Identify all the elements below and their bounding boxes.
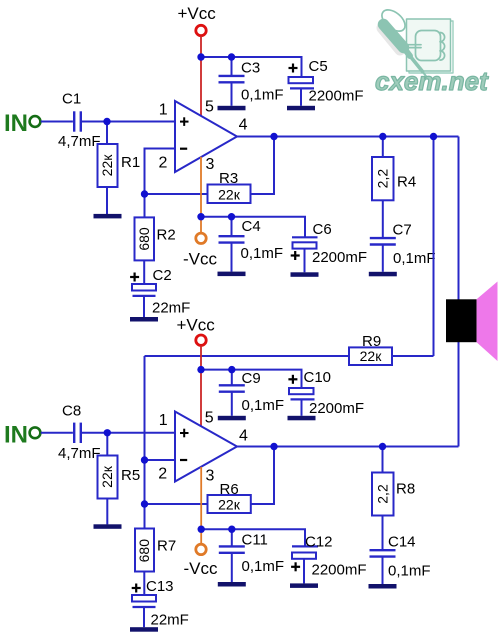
svg-text:R8: R8 bbox=[396, 480, 415, 497]
svg-text:5: 5 bbox=[205, 410, 214, 427]
svg-text:680: 680 bbox=[136, 539, 152, 563]
ground under C11 bbox=[218, 582, 246, 587]
ground under C9 bbox=[218, 416, 246, 421]
wire pin 2 of U2 bbox=[145, 459, 176, 461]
wire R9 right bbox=[392, 355, 434, 357]
wire junction to R2 bbox=[144, 194, 146, 217]
svg-text:R3: R3 bbox=[219, 170, 238, 187]
wire R9 riser from output bbox=[433, 137, 435, 357]
capacitor C7 bbox=[370, 222, 436, 272]
resistor R7 bbox=[135, 529, 176, 572]
svg-text:+Vcc: +Vcc bbox=[178, 4, 217, 23]
capacitor C11 bbox=[219, 529, 284, 582]
node IN (top input) bbox=[4, 110, 40, 137]
wire R1 to ground bbox=[106, 187, 108, 214]
wire R8 to C14 bbox=[382, 516, 384, 551]
svg-text:R6: R6 bbox=[220, 481, 239, 498]
svg-text:2200mF: 2200mF bbox=[309, 400, 364, 417]
wire -Vcc rail bbox=[201, 217, 305, 238]
resistor R5 bbox=[98, 456, 141, 499]
wire R3 left bbox=[145, 193, 208, 195]
svg-text:0,1mF: 0,1mF bbox=[388, 563, 431, 580]
svg-text:C8: C8 bbox=[62, 402, 81, 419]
svg-text:C12: C12 bbox=[305, 533, 333, 550]
wire inverting node vertical (R9 to R7) bbox=[144, 356, 146, 530]
resistor R3 bbox=[208, 170, 251, 203]
svg-text:0,1mF: 0,1mF bbox=[242, 558, 285, 575]
svg-text:0,1mF: 0,1mF bbox=[393, 250, 436, 267]
ground under C6 bbox=[291, 272, 319, 277]
svg-text:4: 4 bbox=[239, 117, 248, 134]
wire junction to R1 bbox=[106, 122, 108, 145]
ground under C7 bbox=[369, 272, 397, 277]
node IN (bottom input) bbox=[4, 421, 40, 448]
svg-text:4: 4 bbox=[239, 427, 248, 444]
+Vcc terminal (top) bbox=[178, 4, 217, 36]
wire pin 2 bbox=[145, 149, 176, 195]
svg-text:C13: C13 bbox=[146, 578, 174, 595]
ground under R5 bbox=[94, 524, 122, 529]
capacitor C2 bbox=[130, 267, 190, 317]
svg-text:2200mF: 2200mF bbox=[312, 562, 367, 579]
wire +Vcc red to pin 5 of U2 bbox=[200, 346, 202, 426]
-Vcc terminal (top) bbox=[183, 233, 218, 268]
capacitor C13 bbox=[132, 578, 189, 629]
op-amp U1 bbox=[175, 101, 237, 172]
junction dots top channel bbox=[103, 118, 110, 125]
op-amp U2 bbox=[175, 412, 237, 482]
svg-text:22к: 22к bbox=[360, 348, 383, 364]
svg-text:R9: R9 bbox=[362, 333, 381, 350]
svg-text:22к: 22к bbox=[99, 154, 115, 177]
wire output of U1 bbox=[237, 136, 459, 138]
capacitor C12 bbox=[291, 533, 366, 583]
svg-text:IN: IN bbox=[4, 421, 28, 448]
capacitor C3 bbox=[219, 57, 284, 106]
capacitor C6 bbox=[291, 221, 367, 272]
svg-text:-Vcc: -Vcc bbox=[184, 559, 219, 578]
wire R6 right to output bbox=[251, 447, 274, 505]
svg-text:R7: R7 bbox=[157, 538, 176, 555]
ground under C2 bbox=[130, 317, 158, 322]
ground under C3 bbox=[218, 106, 246, 111]
svg-text:2,2: 2,2 bbox=[375, 169, 391, 189]
svg-text:1: 1 bbox=[159, 412, 168, 429]
wire +Vcc red to pin 5 bbox=[200, 36, 202, 116]
ground under C13 bbox=[130, 627, 158, 632]
wire R6 left bbox=[145, 503, 208, 505]
svg-text:0,1mF: 0,1mF bbox=[241, 87, 284, 104]
ground under C5 bbox=[287, 106, 315, 111]
capacitor C5 bbox=[289, 58, 364, 106]
wire pin 3 of U2 to -Vcc (orange) bbox=[200, 467, 202, 544]
-Vcc terminal (bottom) bbox=[184, 544, 219, 578]
capacitor C8 bbox=[58, 402, 101, 462]
svg-text:R5: R5 bbox=[121, 467, 140, 484]
resistor R9 bbox=[349, 333, 392, 365]
svg-text:IN: IN bbox=[4, 110, 28, 137]
+Vcc terminal (bottom) bbox=[177, 316, 216, 346]
svg-text:-Vcc: -Vcc bbox=[183, 250, 218, 269]
svg-text:C3: C3 bbox=[241, 60, 260, 77]
wire R4 to C7 bbox=[382, 200, 384, 238]
wire to speaker (vertical) bbox=[458, 137, 460, 447]
cxem.net logo bbox=[375, 6, 489, 96]
wire junction to R5 bbox=[106, 433, 108, 456]
ground under C14 bbox=[369, 584, 397, 589]
svg-text:1: 1 bbox=[159, 101, 168, 118]
resistor R6 bbox=[208, 481, 251, 513]
svg-text:C5: C5 bbox=[309, 58, 328, 75]
svg-text:2: 2 bbox=[159, 155, 168, 172]
svg-text:C2: C2 bbox=[153, 267, 172, 284]
wire IN to C1 bbox=[41, 121, 73, 123]
svg-text:C1: C1 bbox=[62, 91, 81, 108]
svg-text:4,7mF: 4,7mF bbox=[58, 133, 101, 150]
wire C8 to op-amp pin 1 bbox=[82, 432, 175, 434]
wire -Vcc rail (bottom) bbox=[201, 529, 305, 546]
resistor R2 bbox=[135, 217, 176, 260]
wire R9 left to inverting node of U2 bbox=[145, 355, 350, 357]
svg-text:3: 3 bbox=[206, 467, 215, 484]
wire C1 to op-amp pin 1 bbox=[82, 121, 175, 123]
wire output of U2 bbox=[237, 446, 459, 448]
svg-text:R4: R4 bbox=[397, 174, 416, 191]
svg-text:C11: C11 bbox=[242, 531, 268, 548]
speaker LS1 bbox=[446, 282, 498, 362]
wire output to R4 bbox=[382, 137, 384, 158]
svg-text:2200mF: 2200mF bbox=[309, 88, 364, 105]
wire +Vcc rail (bottom) bbox=[201, 370, 302, 388]
svg-text:R1: R1 bbox=[121, 154, 140, 171]
svg-text:4,7mF: 4,7mF bbox=[58, 445, 101, 462]
wire output to R8 bbox=[382, 447, 384, 473]
capacitor C4 bbox=[219, 217, 284, 272]
svg-text:0,1mF: 0,1mF bbox=[241, 245, 284, 262]
svg-text:22к: 22к bbox=[99, 465, 115, 488]
svg-text:C4: C4 bbox=[242, 218, 261, 235]
svg-text:5: 5 bbox=[205, 99, 214, 116]
resistor R4 bbox=[372, 157, 416, 200]
wire R2 to C2 bbox=[143, 260, 145, 284]
svg-text:0,1mF: 0,1mF bbox=[242, 397, 285, 414]
wire +Vcc rail bbox=[201, 57, 302, 77]
junction dots bottom channel bbox=[104, 429, 111, 436]
svg-text:22к: 22к bbox=[218, 186, 241, 202]
svg-text:C10: C10 bbox=[304, 369, 332, 386]
wire IN to C8 bbox=[41, 432, 73, 434]
wire R5 to ground bbox=[106, 499, 108, 525]
wire pin 3 to -Vcc (orange) bbox=[200, 157, 202, 233]
svg-text:C7: C7 bbox=[393, 222, 412, 239]
svg-text:C9: C9 bbox=[242, 370, 261, 387]
wire R7 to C13 bbox=[143, 572, 145, 596]
capacitor C14 bbox=[370, 534, 431, 585]
svg-text:3: 3 bbox=[206, 156, 215, 173]
resistor R1 bbox=[98, 144, 141, 187]
svg-text:680: 680 bbox=[136, 227, 152, 251]
ground under R1 bbox=[94, 214, 122, 219]
svg-text:2200mF: 2200mF bbox=[312, 249, 367, 266]
svg-text:2,2: 2,2 bbox=[375, 484, 391, 504]
svg-text:22mF: 22mF bbox=[151, 611, 189, 628]
ground under C12 bbox=[290, 583, 318, 588]
ground under C4 bbox=[218, 272, 246, 277]
svg-text:C14: C14 bbox=[388, 534, 416, 551]
svg-text:+Vcc: +Vcc bbox=[177, 316, 216, 335]
capacitor C1 bbox=[58, 91, 101, 150]
capacitor C10 bbox=[288, 369, 364, 417]
ground under C10 bbox=[288, 416, 316, 421]
wire R3 right to output bbox=[251, 137, 275, 195]
capacitor C9 bbox=[219, 370, 284, 416]
svg-text:C6: C6 bbox=[313, 221, 332, 238]
svg-text:2: 2 bbox=[158, 466, 167, 483]
svg-text:cxem.net: cxem.net bbox=[375, 66, 489, 96]
svg-text:22к: 22к bbox=[218, 496, 241, 512]
svg-text:22mF: 22mF bbox=[152, 300, 190, 317]
resistor R8 bbox=[372, 473, 415, 516]
svg-text:R2: R2 bbox=[157, 227, 176, 244]
